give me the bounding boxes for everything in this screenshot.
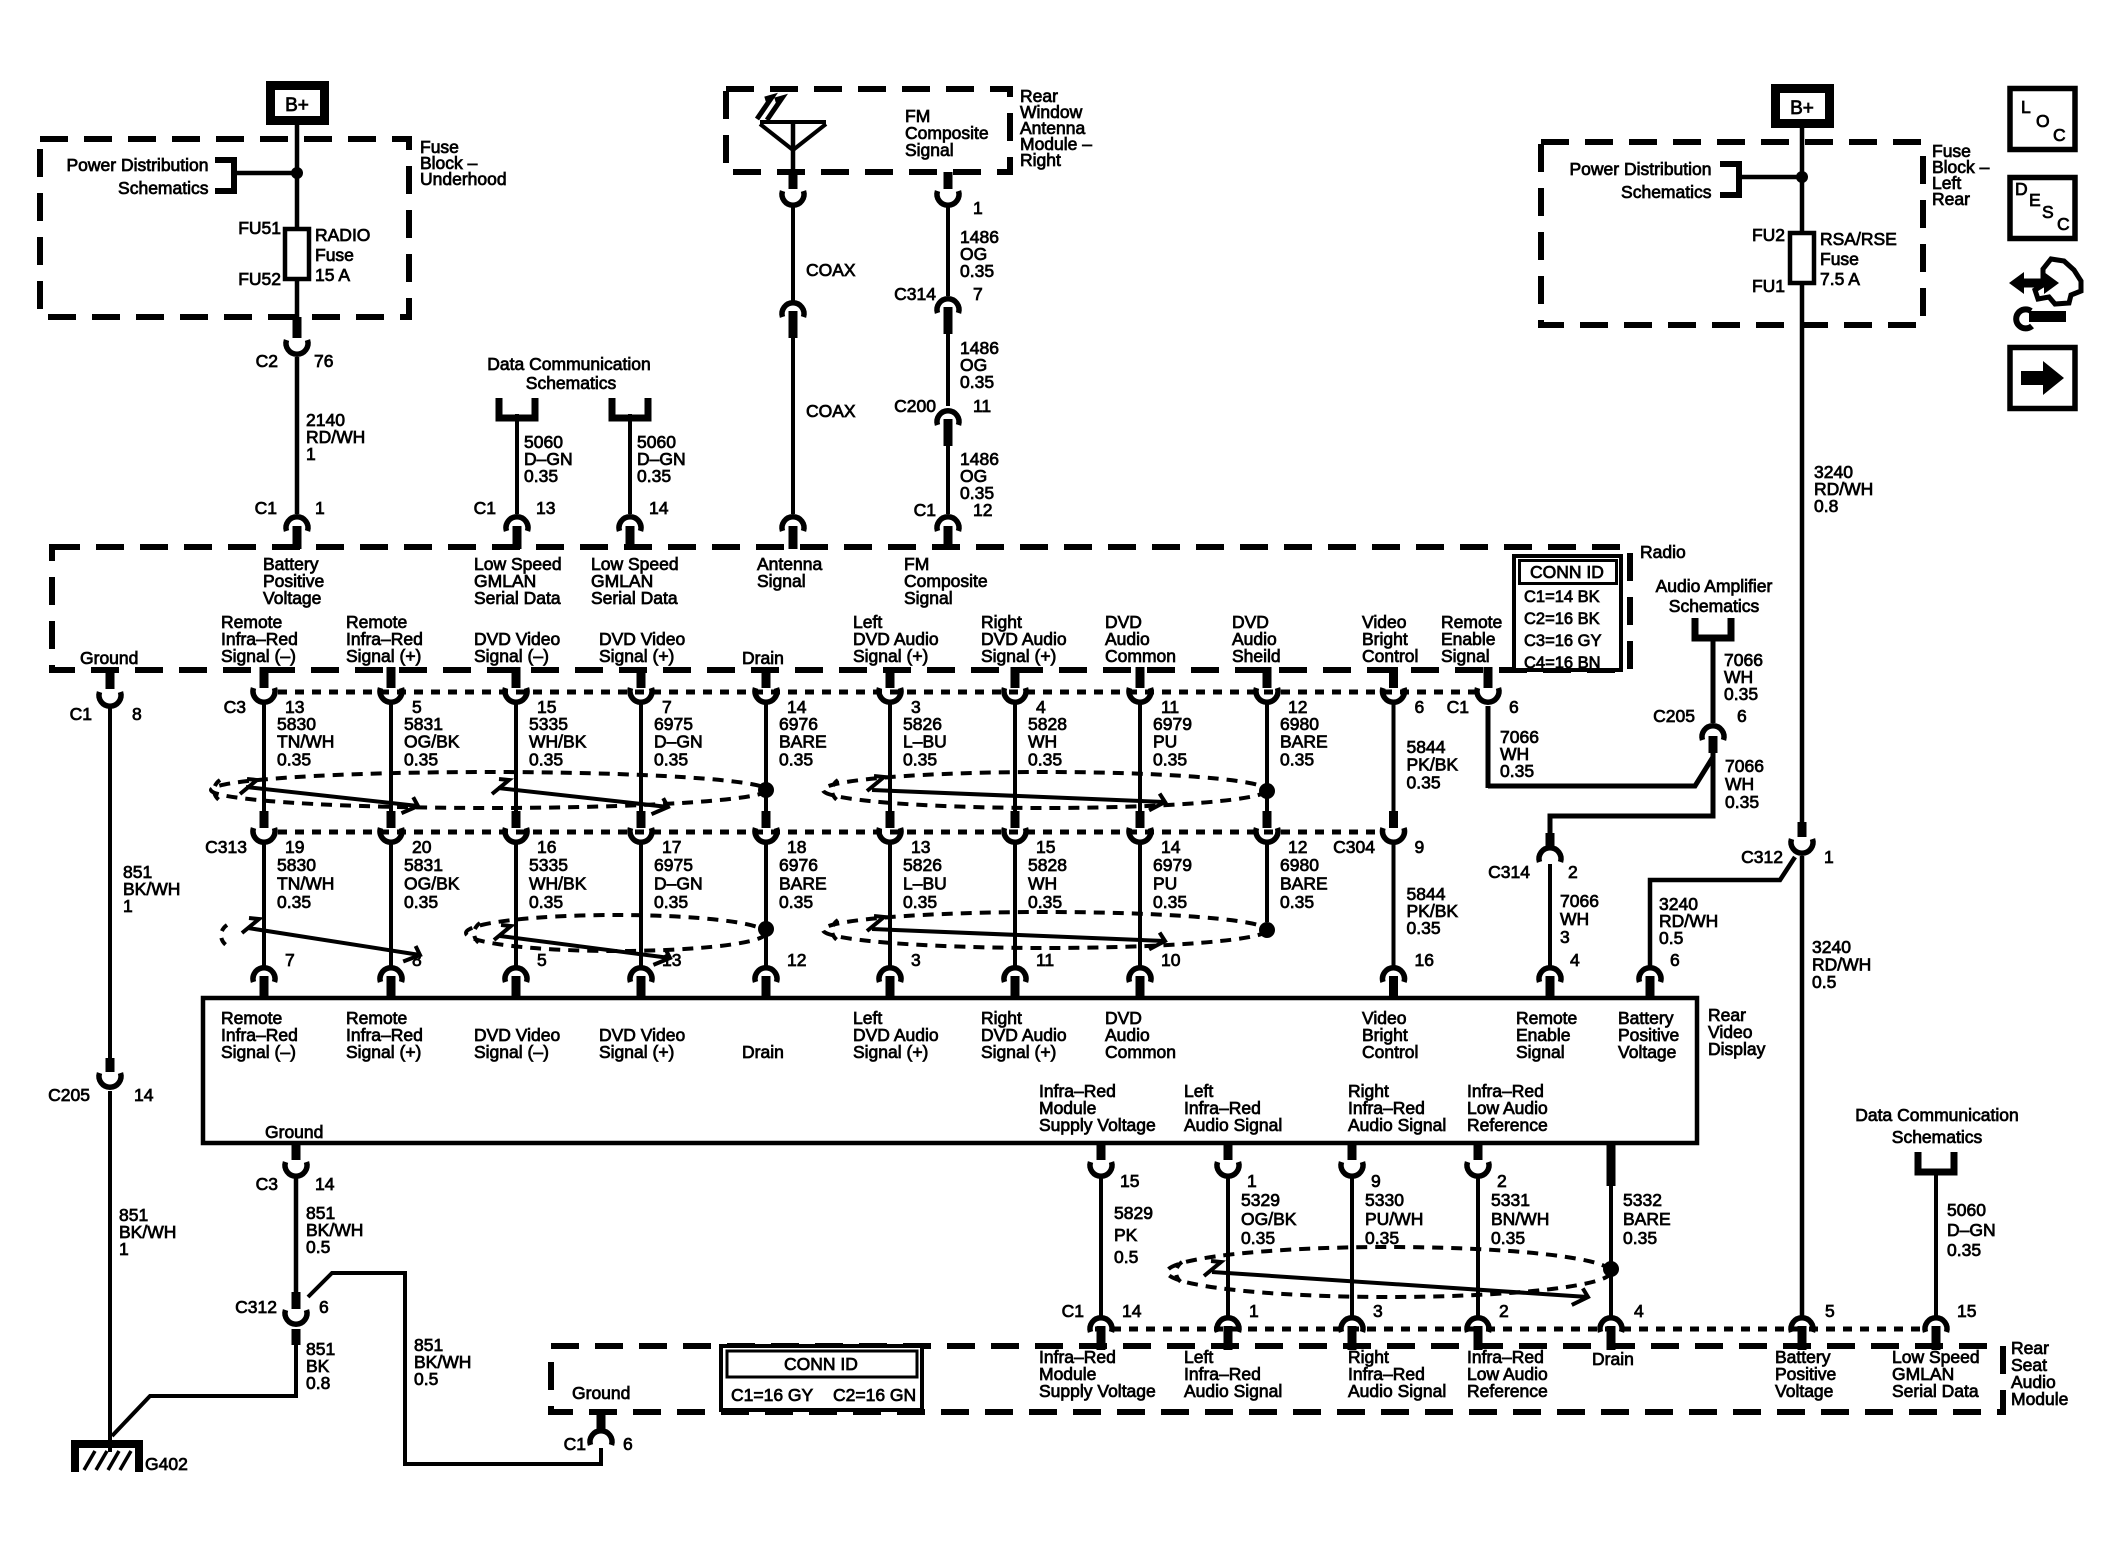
svg-text:14: 14 (1122, 1301, 1142, 1321)
radio connector pin 4 col7 (1004, 667, 1046, 717)
module ground connector C1 pin 6 (564, 1412, 633, 1454)
svg-text:5829: 5829 (1114, 1203, 1153, 1223)
svg-text:Right: Right (1020, 150, 1061, 170)
svg-text:CONN ID: CONN ID (1530, 562, 1604, 582)
twist arrow row1 a (240, 779, 257, 794)
shield junction dot row2 right (1259, 922, 1275, 938)
svg-text:C304: C304 (1333, 837, 1375, 857)
svg-text:5331: 5331 (1491, 1190, 1530, 1210)
wire bottom col 1478 (1476, 1176, 1480, 1318)
antenna symbol (757, 97, 826, 172)
radio bottom labels (80, 612, 1502, 668)
icon DESC box (2010, 178, 2075, 239)
wire row2 col6 (888, 842, 892, 966)
antenna coax wire upper (791, 207, 795, 302)
fuse block left rear box (1541, 142, 1923, 325)
svg-text:Module: Module (2011, 1389, 2068, 1409)
svg-text:Fuse: Fuse (315, 245, 354, 265)
icon arrow box (2010, 348, 2075, 409)
radio connector pin 6 col10 (1383, 667, 1425, 717)
svg-text:C: C (2057, 214, 2070, 234)
wire 1486 OG segment 2 (946, 334, 950, 406)
svg-text:Audio Signal: Audio Signal (1184, 1115, 1282, 1135)
svg-text:5329: 5329 (1241, 1190, 1280, 1210)
svg-text:C3: C3 (224, 697, 246, 717)
svg-text:Common: Common (1105, 646, 1176, 666)
svg-text:15: 15 (1120, 1171, 1139, 1191)
svg-text:0.35: 0.35 (654, 749, 688, 769)
antenna coax wire lower (791, 338, 795, 514)
display bottom connector pin 2 (1467, 1144, 1507, 1191)
wire row1 col4 (639, 700, 643, 811)
svg-text:Supply Voltage: Supply Voltage (1039, 1115, 1156, 1135)
svg-text:0.35: 0.35 (404, 749, 438, 769)
icon double arrow with hook and wrench (2009, 259, 2081, 328)
svg-text:Reference: Reference (1467, 1381, 1548, 1401)
svg-text:PK: PK (1114, 1225, 1138, 1245)
svg-text:6: 6 (1670, 950, 1680, 970)
svg-text:Voltage: Voltage (1618, 1042, 1676, 1062)
svg-text:C312: C312 (235, 1297, 277, 1317)
svg-text:C2: C2 (256, 351, 278, 371)
svg-text:12: 12 (787, 950, 806, 970)
svg-text:C2=16 GN: C2=16 GN (833, 1385, 916, 1405)
svg-text:0.35: 0.35 (277, 892, 311, 912)
svg-text:C1: C1 (564, 1434, 586, 1454)
display bottom connector pin 1 (1217, 1144, 1257, 1191)
svg-text:0.35: 0.35 (524, 466, 558, 486)
svg-text:BARE: BARE (779, 874, 827, 894)
wire bottom col 1101 (1099, 1176, 1103, 1318)
svg-text:Voltage: Voltage (263, 588, 321, 608)
svg-text:0.35: 0.35 (529, 749, 563, 769)
svg-text:OG/BK: OG/BK (1241, 1209, 1297, 1229)
svg-text:Underhood: Underhood (420, 169, 507, 189)
node junction on left feed (291, 167, 303, 179)
svg-text:12: 12 (1288, 837, 1307, 857)
svg-text:FU52: FU52 (238, 269, 281, 289)
svg-text:Serial Data: Serial Data (1892, 1381, 1979, 1401)
wire bottom col 1352 (1350, 1176, 1354, 1318)
radio connector pin 14 col5 (755, 667, 807, 717)
antenna connector at radio (782, 517, 804, 531)
off-page bracket data comm bottom (1918, 1152, 1954, 1172)
connector C312 pin 1 (1798, 822, 1807, 837)
wire row1 col9 (1265, 700, 1269, 811)
node junction right feed (1796, 171, 1808, 183)
svg-text:Ground: Ground (265, 1122, 323, 1142)
svg-text:Signal: Signal (757, 571, 806, 591)
svg-text:B+: B+ (1790, 98, 1814, 119)
svg-text:5330: 5330 (1365, 1190, 1404, 1210)
svg-text:0.35: 0.35 (1947, 1240, 1981, 1260)
off-page bracket audio amplifier (1695, 618, 1731, 638)
svg-text:Signal (+): Signal (+) (981, 646, 1056, 666)
svg-text:Schematics: Schematics (1892, 1127, 1983, 1147)
svg-text:6: 6 (1509, 697, 1519, 717)
svg-text:0.35: 0.35 (1241, 1228, 1275, 1248)
shield junction dot row2 left (758, 921, 774, 937)
off-page bracket data comm 2 (612, 398, 648, 418)
dotted inline connector line row2 (278, 830, 1380, 835)
twisted pair ellipse bottom (1167, 1247, 1611, 1297)
wire 7066 branch to C314 (1550, 754, 1713, 834)
svg-text:0.5: 0.5 (306, 1237, 330, 1257)
svg-text:G402: G402 (145, 1454, 188, 1474)
svg-text:C205: C205 (1653, 706, 1695, 726)
svg-text:C1: C1 (70, 704, 92, 724)
svg-text:5060: 5060 (1947, 1200, 1986, 1220)
module connector pin 15 (1925, 1301, 1976, 1350)
svg-text:PU/WH: PU/WH (1365, 1209, 1423, 1229)
svg-text:Radio: Radio (1640, 542, 1686, 562)
svg-text:Audio Amplifier: Audio Amplifier (1656, 576, 1773, 596)
svg-text:PU: PU (1153, 874, 1177, 894)
svg-text:0.35: 0.35 (654, 892, 688, 912)
wire 851 BK/WH 0.5 (294, 1176, 299, 1292)
svg-text:Signal: Signal (1516, 1042, 1565, 1062)
wire remote enable 7066 path (1488, 706, 1713, 788)
svg-text:6980: 6980 (1280, 855, 1319, 875)
wire row2 col4 (639, 842, 643, 966)
svg-text:C1: C1 (1062, 1301, 1084, 1321)
svg-text:5831: 5831 (404, 855, 443, 875)
svg-text:9: 9 (1415, 837, 1425, 857)
radio connector pin 5 col2 (380, 667, 422, 717)
svg-text:Drain: Drain (742, 648, 784, 668)
svg-text:0.35: 0.35 (277, 749, 311, 769)
svg-text:Reference: Reference (1467, 1115, 1548, 1135)
svg-text:Signal (+): Signal (+) (599, 646, 674, 666)
wire row2 col8 (1138, 842, 1142, 966)
wire row1 col3 (514, 700, 518, 811)
wire row1 col2 (389, 700, 393, 811)
svg-text:Audio Signal: Audio Signal (1184, 1381, 1282, 1401)
svg-text:Schematics: Schematics (118, 178, 209, 198)
svg-text:CONN ID: CONN ID (784, 1354, 858, 1374)
display connector pin 3 col6 (879, 950, 921, 1000)
dotted inline connector line bottom (1095, 1327, 1922, 1332)
svg-text:Supply Voltage: Supply Voltage (1039, 1381, 1156, 1401)
svg-text:1: 1 (123, 896, 133, 916)
svg-text:C1=14 BK: C1=14 BK (1524, 588, 1600, 606)
wire row2 col5 (764, 842, 768, 966)
svg-text:Control: Control (1362, 646, 1418, 666)
svg-text:20: 20 (412, 837, 432, 857)
svg-text:5335: 5335 (529, 855, 568, 875)
svg-text:C1: C1 (255, 498, 277, 518)
wire branch to display battery pin (1650, 857, 1795, 966)
svg-text:18: 18 (787, 837, 806, 857)
svg-text:10: 10 (1161, 950, 1181, 970)
radio connector pin 12 col9 (1256, 667, 1307, 717)
svg-text:2: 2 (1568, 862, 1578, 882)
wire row1 col7 (1013, 700, 1017, 811)
svg-text:Signal (+): Signal (+) (981, 1042, 1056, 1062)
radio connector pin 7 col4 (630, 667, 672, 717)
wire 851 to ground (108, 1091, 112, 1452)
wire row2 col9 to shield dot (1265, 842, 1269, 922)
svg-text:14: 14 (134, 1085, 154, 1105)
svg-text:TN/WH: TN/WH (277, 874, 334, 894)
svg-text:B+: B+ (285, 95, 309, 116)
wire row1 col1 (262, 700, 266, 811)
wire 851 BK/WH 0.5 branch to module (308, 1273, 601, 1464)
antenna lead connector below module (789, 172, 798, 189)
svg-text:WH: WH (1725, 774, 1754, 794)
svg-text:Schematics: Schematics (526, 373, 617, 393)
svg-text:Schematics: Schematics (1621, 182, 1712, 202)
bracket power distribution right (1720, 164, 1739, 195)
svg-text:C1=16 GY: C1=16 GY (731, 1385, 814, 1405)
svg-text:Data Communication: Data Communication (1855, 1105, 2018, 1125)
connector C2 pin 76 (293, 317, 302, 338)
svg-text:BARE: BARE (1280, 874, 1328, 894)
svg-text:0.35: 0.35 (1407, 772, 1441, 792)
wire 5060 D-GN second (628, 414, 632, 514)
svg-text:C1: C1 (1447, 697, 1469, 717)
ground symbol G402 (75, 1444, 139, 1472)
svg-text:6979: 6979 (1153, 855, 1192, 875)
wire row2 col1 (262, 842, 266, 966)
module connector pin 5 battery (1791, 1301, 1835, 1350)
svg-text:12: 12 (973, 500, 992, 520)
svg-text:0.35: 0.35 (1724, 684, 1758, 704)
svg-text:1: 1 (1247, 1171, 1257, 1191)
twist arrow bottom (1204, 1261, 1221, 1276)
svg-text:0.35: 0.35 (1500, 761, 1534, 781)
svg-text:OG/BK: OG/BK (404, 874, 460, 894)
display ground connector C3 pin 14 (256, 1144, 335, 1194)
display connector pin 12 col5 (755, 950, 806, 1000)
inline connector pin 15 row2 col7 (1004, 811, 1055, 857)
module connector pin 1 (1217, 1301, 1259, 1350)
twist arrow row2 right (867, 916, 884, 931)
svg-text:13: 13 (911, 837, 930, 857)
wire row1 col10 (1392, 700, 1396, 811)
svg-text:0.35: 0.35 (960, 372, 994, 392)
svg-text:COAX: COAX (806, 401, 856, 421)
module labels (572, 1347, 1980, 1403)
svg-text:0.35: 0.35 (1725, 792, 1759, 812)
svg-text:0.35: 0.35 (1407, 918, 1441, 938)
svg-text:1: 1 (119, 1239, 129, 1259)
svg-text:Common: Common (1105, 1042, 1176, 1062)
svg-text:13: 13 (662, 950, 681, 970)
wire B+ to fuse FU51 (295, 120, 300, 230)
svg-text:Signal: Signal (905, 140, 954, 160)
svg-text:17: 17 (662, 837, 681, 857)
svg-text:0.35: 0.35 (1280, 749, 1314, 769)
display connector pin 5 col3 (505, 950, 547, 1000)
svg-text:C3: C3 (256, 1174, 278, 1194)
CONN ID table (radio) (1514, 556, 1621, 672)
svg-text:Audio Signal: Audio Signal (1348, 1115, 1446, 1135)
twisted pair ellipse row2 middle (466, 915, 766, 951)
svg-text:0.35: 0.35 (1153, 749, 1187, 769)
shield junction dot row1 right (1259, 783, 1275, 799)
svg-text:0.35: 0.35 (903, 749, 937, 769)
wire 1486 OG segment 3 (946, 446, 950, 514)
svg-text:Sheild: Sheild (1232, 646, 1281, 666)
twisted pair ellipse row1 left (211, 772, 767, 808)
svg-text:6976: 6976 (779, 855, 818, 875)
wire tap to power distribution left (234, 171, 297, 176)
svg-text:WH: WH (1560, 909, 1589, 929)
svg-text:76: 76 (314, 351, 333, 371)
svg-text:4: 4 (1570, 950, 1580, 970)
svg-text:1: 1 (973, 198, 983, 218)
svg-text:Signal (–): Signal (–) (221, 646, 296, 666)
svg-text:0.35: 0.35 (1491, 1228, 1525, 1248)
svg-text:5830: 5830 (277, 855, 316, 875)
display connector pin 7 col1 (253, 950, 295, 1000)
svg-text:1: 1 (306, 444, 316, 464)
module connector pin 14 (1090, 1301, 1142, 1350)
svg-text:Power Distribution: Power Distribution (1570, 159, 1712, 179)
svg-text:3: 3 (1373, 1301, 1383, 1321)
svg-text:7066: 7066 (1560, 891, 1599, 911)
svg-text:Signal (+): Signal (+) (346, 646, 421, 666)
svg-text:Control: Control (1362, 1042, 1418, 1062)
wire 7066 to display pin 4 (1548, 864, 1552, 966)
svg-text:16: 16 (1415, 950, 1434, 970)
svg-text:0.35: 0.35 (779, 749, 813, 769)
rear window antenna module box (726, 89, 1010, 172)
wire 851 BK to ground (112, 1345, 296, 1436)
inline connector pin 13 row2 col6 (879, 811, 930, 857)
svg-text:5826: 5826 (903, 855, 942, 875)
svg-text:15: 15 (1957, 1301, 1976, 1321)
fuse FU51/FU52 RADIO 15A (285, 229, 309, 279)
twist arrow row1 c (867, 776, 884, 791)
svg-text:Signal (+): Signal (+) (853, 1042, 928, 1062)
svg-text:D–GN: D–GN (654, 874, 703, 894)
inline connector pin 14 row2 col8 (1129, 811, 1181, 857)
svg-text:C314: C314 (894, 284, 936, 304)
svg-text:6: 6 (623, 1434, 633, 1454)
svg-text:1: 1 (315, 498, 325, 518)
svg-text:5332: 5332 (1623, 1190, 1662, 1210)
svg-text:5828: 5828 (1028, 855, 1067, 875)
svg-text:15 A: 15 A (315, 265, 350, 285)
CONN ID table (module) (721, 1346, 922, 1410)
svg-text:FU51: FU51 (238, 218, 281, 238)
inline connector C304 pin 9 row2 col10 (1382, 811, 1424, 857)
svg-text:Drain: Drain (1592, 1349, 1634, 1369)
module connector pin 4 drain (1600, 1301, 1644, 1350)
svg-text:L: L (2021, 97, 2031, 117)
wire row1 col6 (888, 700, 892, 811)
wire B+ to fuse FU2 (1800, 123, 1805, 234)
svg-text:Signal (+): Signal (+) (853, 646, 928, 666)
svg-text:0.35: 0.35 (903, 892, 937, 912)
svg-text:15: 15 (1036, 837, 1055, 857)
display connector pin 10 col8 (1129, 950, 1181, 1000)
svg-text:3: 3 (911, 950, 921, 970)
svg-text:Signal (+): Signal (+) (346, 1042, 421, 1062)
svg-text:19: 19 (285, 837, 304, 857)
svg-text:0.35: 0.35 (1365, 1228, 1399, 1248)
inline connector pin 19 row2 col1 (253, 811, 304, 857)
svg-text:13: 13 (536, 498, 555, 518)
svg-text:11: 11 (973, 396, 991, 416)
radio module box (52, 547, 1630, 670)
svg-text:C: C (2053, 125, 2066, 145)
svg-text:0.5: 0.5 (1659, 928, 1683, 948)
svg-text:2: 2 (1499, 1301, 1509, 1321)
display top labels (221, 1008, 1679, 1062)
svg-text:Signal (–): Signal (–) (474, 1042, 549, 1062)
display connector pin 13 col4 (630, 950, 681, 1000)
svg-text:C312: C312 (1741, 847, 1783, 867)
svg-text:11: 11 (1036, 950, 1054, 970)
B+ terminal (right) (1776, 89, 1830, 124)
bracket power distribution left (215, 160, 234, 191)
svg-text:Signal (–): Signal (–) (221, 1042, 296, 1062)
twist arrow row1 b (492, 779, 509, 794)
svg-text:0.35: 0.35 (960, 261, 994, 281)
svg-text:WH: WH (1028, 874, 1057, 894)
svg-text:6975: 6975 (654, 855, 693, 875)
rear seat audio module box (551, 1346, 2003, 1412)
svg-text:7.5 A: 7.5 A (1820, 269, 1860, 289)
svg-text:Serial Data: Serial Data (474, 588, 561, 608)
twist arrow row2 middle (494, 925, 511, 940)
svg-text:WH/BK: WH/BK (529, 874, 587, 894)
wire row1 col5 (764, 700, 768, 811)
shield junction dot row1 left (758, 782, 774, 798)
svg-text:9: 9 (1371, 1171, 1381, 1191)
svg-text:0.35: 0.35 (404, 892, 438, 912)
svg-text:L–BU: L–BU (903, 874, 947, 894)
svg-text:5: 5 (1825, 1301, 1835, 1321)
svg-text:Power Distribution: Power Distribution (67, 155, 209, 175)
radio connector pin 3 col6 (879, 667, 921, 717)
svg-text:0.5: 0.5 (1812, 972, 1836, 992)
twist arrow row2 left pair (221, 925, 229, 947)
wire 5060 D-GN bottom (1934, 1172, 1938, 1318)
inline connector pin 20 row2 col2 (380, 811, 432, 857)
display connector pin 8 col2 (380, 950, 422, 1000)
connector C205 pin 14 (106, 1058, 115, 1072)
svg-text:0.35: 0.35 (1280, 892, 1314, 912)
svg-text:Display: Display (1708, 1039, 1766, 1059)
svg-text:C313: C313 (205, 837, 247, 857)
inline connector pin 17 row2 col4 (630, 811, 681, 857)
drain wire from display (1607, 1144, 1616, 1318)
svg-text:RSA/RSE: RSA/RSE (1820, 229, 1897, 249)
svg-text:C4=16 BN: C4=16 BN (1524, 654, 1601, 672)
wire bottom col 1228 (1226, 1176, 1230, 1318)
svg-text:Signal (–): Signal (–) (474, 646, 549, 666)
svg-text:16: 16 (537, 837, 556, 857)
svg-text:0.35: 0.35 (1028, 749, 1062, 769)
svg-text:5: 5 (537, 950, 547, 970)
svg-text:0.35: 0.35 (637, 466, 671, 486)
svg-text:7066: 7066 (1725, 756, 1764, 776)
wire row2 col3 (514, 842, 518, 966)
svg-text:0.35: 0.35 (1623, 1228, 1657, 1248)
svg-text:Schematics: Schematics (1669, 596, 1760, 616)
wire fuse to connector C2 (295, 279, 300, 322)
twisted pair ellipse row2 right (823, 912, 1267, 948)
svg-text:C2=16 BK: C2=16 BK (1524, 610, 1600, 628)
svg-text:C1: C1 (474, 498, 496, 518)
svg-text:0.8: 0.8 (1814, 496, 1838, 516)
wire 5060 D-GN first (515, 414, 519, 514)
svg-text:Rear: Rear (1932, 189, 1970, 209)
